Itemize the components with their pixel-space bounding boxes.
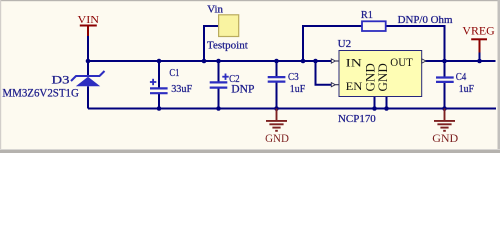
- svg-text:Vin: Vin: [207, 4, 223, 15]
- svg-text:R1: R1: [361, 9, 373, 21]
- svg-text:DNP: DNP: [231, 81, 255, 95]
- svg-text:OUT: OUT: [390, 55, 413, 69]
- svg-text:VREG: VREG: [462, 26, 494, 38]
- svg-text:D3: D3: [52, 72, 70, 86]
- svg-text:GND: GND: [265, 131, 289, 145]
- svg-text:1uF: 1uF: [459, 83, 474, 95]
- svg-text:1uF: 1uF: [290, 83, 305, 95]
- svg-text:IN: IN: [346, 56, 363, 70]
- svg-text:GND: GND: [432, 131, 458, 145]
- svg-text:U2: U2: [338, 38, 352, 50]
- svg-text:NCP170: NCP170: [338, 113, 376, 125]
- svg-text:C4: C4: [456, 71, 467, 83]
- svg-text:DNP/0 Ohm: DNP/0 Ohm: [398, 14, 453, 26]
- svg-text:MM3Z6V2ST1G: MM3Z6V2ST1G: [2, 86, 79, 100]
- svg-text:Testpoint: Testpoint: [207, 39, 248, 51]
- svg-text:EN: EN: [346, 79, 363, 93]
- svg-text:33uF: 33uF: [171, 83, 192, 95]
- svg-text:VIN: VIN: [78, 15, 100, 26]
- svg-text:C3: C3: [288, 71, 299, 83]
- svg-text:GND: GND: [375, 63, 390, 91]
- svg-text:C1: C1: [169, 67, 179, 79]
